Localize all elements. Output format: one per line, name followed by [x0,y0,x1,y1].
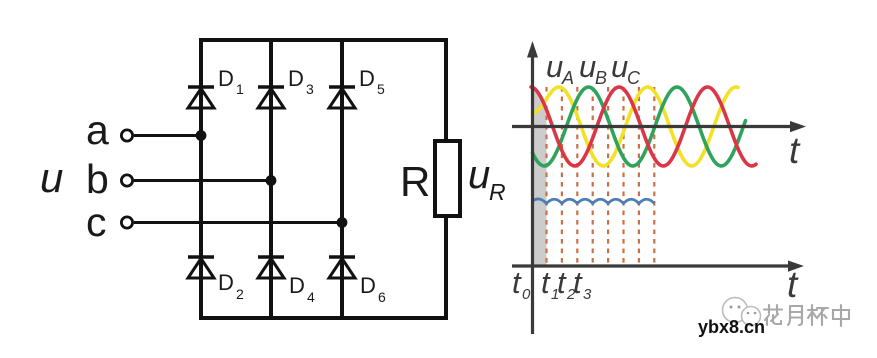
svg-text:A: A [561,68,574,88]
svg-text:B: B [595,68,607,88]
svg-text:a: a [86,107,109,153]
svg-text:D: D [289,273,305,298]
svg-text:R: R [400,158,430,205]
svg-text:b: b [86,156,109,202]
svg-text:t: t [557,265,567,300]
svg-text:R: R [489,179,506,205]
svg-text:u: u [468,153,490,197]
svg-text:c: c [86,199,107,245]
svg-text:D: D [218,270,234,295]
svg-text:5: 5 [377,81,385,97]
svg-text:2: 2 [236,286,244,302]
svg-text:D: D [288,66,304,91]
svg-text:3: 3 [306,81,314,97]
svg-text:D: D [218,66,234,91]
svg-text:6: 6 [378,289,386,305]
svg-text:u: u [579,49,596,84]
svg-text:t: t [789,130,801,171]
svg-text:4: 4 [307,289,315,305]
svg-text:3: 3 [583,286,592,303]
svg-text:C: C [627,68,641,88]
svg-text:0: 0 [522,286,531,303]
svg-text:1: 1 [236,81,244,97]
svg-text:u: u [611,49,628,84]
svg-text:D: D [359,66,375,91]
svg-text:t: t [573,265,583,300]
svg-text:ybx8.cn: ybx8.cn [698,317,765,337]
svg-text:D: D [360,273,376,298]
svg-text:t: t [787,264,799,305]
svg-text:u: u [40,154,63,201]
svg-text:t: t [541,265,551,300]
svg-text:t: t [512,265,522,300]
svg-text:u: u [546,49,563,84]
